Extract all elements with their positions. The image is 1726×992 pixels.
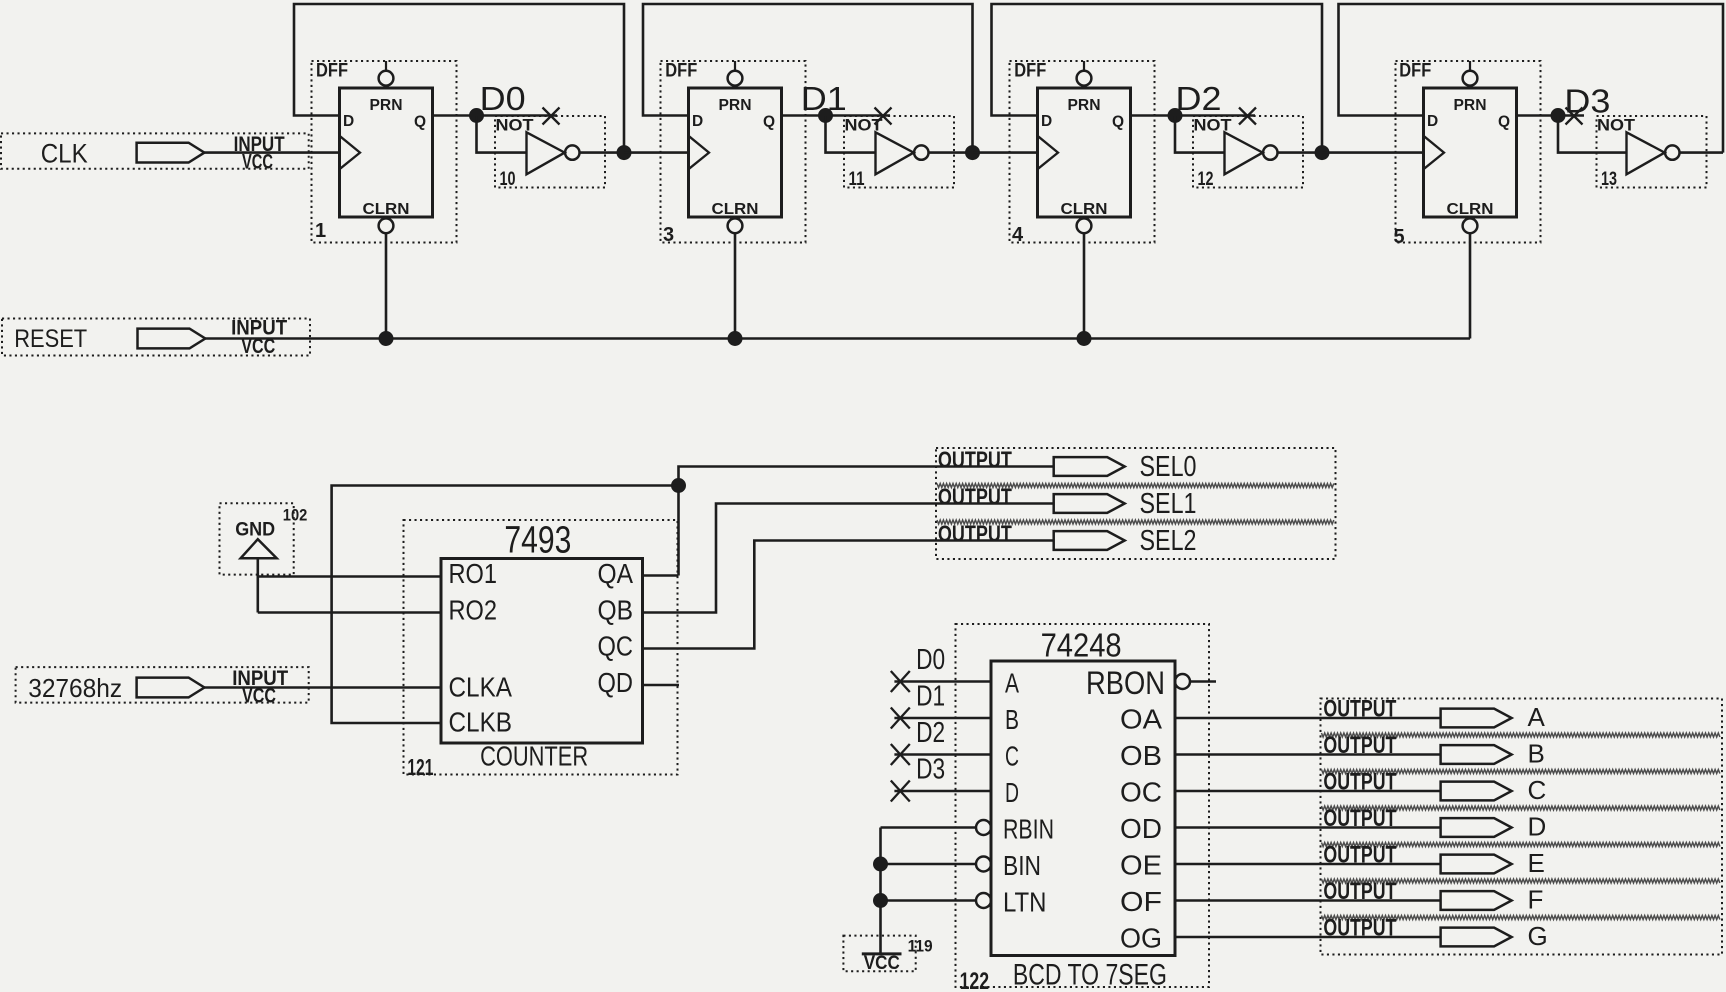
output pin SEL2 OUTPUT label (938, 521, 1012, 547)
wire clock chain to next stage (973, 151, 1038, 154)
separator in output group row 1 (1322, 733, 1720, 737)
counter U121 pin label QB (598, 595, 634, 626)
wire CLRN pull-down stage 2 (734, 233, 737, 338)
flip-flop U5 PRN label (1454, 97, 1487, 114)
input pin 32768hz tag symbol (137, 678, 205, 698)
net stub marker input 0 (891, 671, 910, 692)
decoder U122 BIN bubble (976, 857, 991, 872)
svg-text:121: 121 (407, 754, 433, 780)
inverter NOT 13 label (1597, 116, 1636, 135)
output pin SEL1 OUTPUT label (938, 484, 1012, 510)
wire CLK to flip-flop 1 clock (204, 151, 339, 154)
inverter NOT 12 dotted boundary (1193, 116, 1303, 188)
net label D1 (801, 80, 847, 117)
flip-flop U5 instance number (1394, 226, 1405, 248)
output pin C OUTPUT label (1323, 769, 1396, 796)
svg-text:D: D (1528, 812, 1547, 842)
decoder U122 pin label A (1005, 668, 1019, 699)
inverter NOT 12 bubble (1263, 145, 1277, 159)
wire decoder output B (1175, 753, 1441, 756)
decoder U122 pin label OA (1120, 704, 1162, 735)
svg-text:D3: D3 (1564, 83, 1610, 120)
net label D2 (1176, 80, 1222, 117)
decoder U122 pin label OB (1120, 740, 1162, 771)
svg-text:B: B (1528, 739, 1545, 769)
svg-text:RBIN: RBIN (1003, 814, 1054, 845)
svg-text:CLRN: CLRN (1061, 201, 1108, 218)
flip-flop U3 D pin label (692, 113, 703, 130)
wire feedback loop stage 1 (294, 4, 624, 153)
svg-text:D: D (1005, 777, 1019, 808)
wire decoder output G (1175, 936, 1441, 939)
input pin CLK dotted boundary (1, 133, 309, 168)
input pin CLK tag symbol (137, 143, 205, 163)
output pin C name (1528, 775, 1547, 805)
flip-flop U5 body (1424, 88, 1517, 217)
net label D3 at decoder (916, 754, 945, 786)
flip-flop U4 Q pin label (1112, 114, 1124, 131)
output pin SEL0 OUTPUT label (938, 447, 1012, 473)
svg-text:OF: OF (1120, 886, 1162, 917)
wire feedback loop stage 3 (992, 4, 1323, 153)
flip-flop U1 CLRN label (363, 201, 410, 218)
flip-flop U4 PRN label (1068, 97, 1101, 114)
wire decoder input 0 (894, 680, 991, 683)
flip-flop U1 clock triangle (340, 136, 361, 169)
flip-flop U4 clock triangle (1038, 136, 1059, 169)
wire QC output (643, 541, 1054, 649)
wire decoder output A (1175, 717, 1441, 720)
inverter NOT 13 instance number (1601, 169, 1617, 190)
svg-text:NOT: NOT (496, 116, 535, 135)
svg-text:OUTPUT: OUTPUT (1323, 805, 1396, 832)
svg-text:OUTPUT: OUTPUT (1323, 842, 1396, 869)
svg-text:PRN: PRN (1068, 97, 1101, 114)
input pin 32768hz VCC label (242, 684, 276, 707)
inverter NOT 13 dotted boundary (1597, 116, 1707, 188)
svg-text:OUTPUT: OUTPUT (1323, 769, 1396, 796)
net stub marker input 3 (891, 781, 910, 802)
svg-text:PRN: PRN (719, 97, 752, 114)
net label D0 at decoder (916, 644, 945, 676)
input pin CLK INPUT label (234, 133, 285, 156)
counter U121 body (441, 559, 643, 744)
svg-text:F: F (1528, 885, 1544, 915)
inverter NOT 11 label (845, 116, 884, 135)
flip-flop U1 PRN label (370, 97, 403, 114)
net stub marker input 2 (891, 744, 910, 765)
flip-flop U4 dotted boundary (1010, 61, 1155, 243)
separator in output group row 5 (1322, 879, 1720, 883)
net label D3 (1564, 83, 1610, 120)
wire QA output (643, 574, 679, 577)
counter U121 pin label CLKB (449, 707, 513, 738)
inverter NOT 11 dotted boundary (844, 116, 954, 188)
wire Q0 output (433, 114, 558, 117)
decoder U122 pin label RBON (1086, 665, 1165, 701)
svg-text:SEL0: SEL0 (1140, 451, 1197, 483)
svg-text:OE: OE (1120, 850, 1162, 881)
output pin E name (1528, 848, 1545, 878)
node reset junction stage 2 (728, 331, 743, 346)
net label D2 at decoder (916, 717, 945, 749)
wire VCC riser (879, 828, 882, 953)
flip-flop U3 PRN label (719, 97, 752, 114)
svg-text:D0: D0 (916, 644, 945, 676)
inverter NOT 10 label (496, 116, 535, 135)
ground symbol GND label (235, 520, 275, 541)
input pin 32768hz INPUT label (232, 667, 288, 690)
wire decoder output F (1175, 899, 1441, 902)
svg-text:Q: Q (763, 114, 775, 131)
svg-text:CLRN: CLRN (363, 201, 410, 218)
svg-text:QD: QD (598, 667, 634, 698)
svg-text:SEL2: SEL2 (1140, 525, 1197, 557)
flip-flop U4 PRN bubble (1077, 71, 1092, 86)
svg-text:7493: 7493 (504, 520, 571, 562)
svg-text:4: 4 (1012, 224, 1024, 246)
flip-flop U1 CLRN bubble (379, 218, 394, 233)
node clock junction stage 4 (1315, 145, 1330, 160)
flip-flop U1 body (340, 88, 433, 217)
svg-text:RO1: RO1 (449, 558, 498, 589)
svg-text:OB: OB (1120, 740, 1162, 771)
flip-flop U3 instance number (663, 224, 674, 246)
net label D1 at decoder (916, 681, 945, 713)
input pin RESET INPUT label (231, 317, 287, 340)
output pin B tag symbol (1441, 745, 1512, 764)
decoder U122 RBON bubble (1175, 674, 1190, 689)
counter U121 pin label RO2 (449, 595, 498, 626)
flip-flop U3 dotted boundary (661, 61, 806, 243)
svg-text:OUTPUT: OUTPUT (938, 447, 1012, 473)
svg-text:13: 13 (1601, 169, 1617, 190)
flip-flop U5 D pin label (1427, 113, 1438, 130)
net stub marker on Q3 (1566, 108, 1583, 125)
wire QB output (643, 504, 1054, 613)
output pin D tag symbol (1441, 818, 1512, 837)
svg-text:Q: Q (414, 114, 426, 131)
svg-text:D: D (1041, 113, 1052, 130)
flip-flop U3 PRN bubble (728, 71, 743, 86)
svg-text:D: D (343, 113, 354, 130)
wire decoder output C (1175, 790, 1441, 793)
node LTN junction (873, 893, 888, 908)
inverter NOT 11 triangle (876, 132, 914, 174)
counter U121 pin label RO1 (449, 558, 498, 589)
output pin F tag symbol (1441, 891, 1512, 910)
svg-text:10: 10 (500, 169, 516, 190)
inverter NOT 12 label (1194, 116, 1233, 135)
svg-text:QA: QA (598, 558, 634, 589)
flip-flop U5 Q pin label (1498, 114, 1510, 131)
wire decoder input 2 (894, 753, 991, 756)
wire Q1 to NOT 11 input (826, 116, 876, 153)
svg-text:C: C (1528, 775, 1547, 805)
output pin D name (1528, 812, 1547, 842)
power symbol VCC bar (862, 952, 902, 955)
wire NOT 11 output (929, 151, 973, 154)
svg-text:OUTPUT: OUTPUT (1323, 732, 1396, 759)
separator in output group row 4 (1322, 843, 1720, 847)
svg-text:CLRN: CLRN (1447, 201, 1494, 218)
decoder U122 pin label C (1005, 741, 1019, 772)
wire GND stem (256, 558, 259, 612)
svg-text:CLKA: CLKA (449, 672, 513, 703)
wire decoder input 3 (894, 790, 991, 793)
svg-text:D3: D3 (916, 754, 945, 786)
flip-flop U3 PRN stub (734, 61, 736, 71)
flip-flop U3 Q pin label (763, 114, 775, 131)
flip-flop U1 dotted boundary (312, 61, 457, 243)
input pin RESET VCC label (241, 335, 275, 358)
decoder U122 pin label B (1005, 704, 1019, 735)
svg-text:OUTPUT: OUTPUT (1323, 878, 1396, 905)
flip-flop U3 DFF label (665, 61, 697, 82)
wire Q3 output (1517, 114, 1585, 117)
wire Q2 to NOT 12 input (1175, 116, 1225, 153)
input pin RESET tag symbol (138, 329, 206, 349)
svg-text:DFF: DFF (1399, 61, 1431, 82)
counter U121 pin label QC (598, 631, 634, 662)
flip-flop U1 D pin label (343, 113, 354, 130)
flip-flop U5 PRN stub (1469, 61, 1471, 71)
net stub marker on Q1 (875, 108, 892, 125)
counter U121 7493 dotted boundary (404, 520, 678, 775)
output pin SEL1 name (1140, 488, 1197, 520)
inverter NOT 13 triangle (1627, 132, 1665, 174)
output pin SEL0 name (1140, 451, 1197, 483)
flip-flop U5 CLRN bubble (1463, 218, 1478, 233)
wire clock chain to next stage (624, 151, 689, 154)
power symbol VCC label (864, 953, 900, 974)
output pin B name (1528, 739, 1545, 769)
decoder U122 pin label OD (1120, 813, 1162, 844)
output pin SEL0 tag symbol (1054, 457, 1125, 476)
wire QA feedback to CLKB (332, 486, 679, 724)
svg-text:OUTPUT: OUTPUT (1323, 915, 1396, 942)
wire Q1 output (782, 114, 891, 117)
net stub marker on Q0 (543, 108, 560, 125)
wire clock chain to next stage (1322, 151, 1424, 154)
output pin A OUTPUT label (1323, 696, 1396, 723)
svg-text:D1: D1 (916, 681, 945, 713)
power symbol VCC instance number 119 (908, 937, 933, 955)
node Q3 junction (1551, 108, 1566, 123)
input pin CLK VCC label (242, 150, 273, 173)
svg-text:COUNTER: COUNTER (480, 741, 588, 772)
svg-text:119: 119 (908, 937, 933, 955)
power symbol VCC dotted boundary (843, 936, 915, 972)
flip-flop U4 CLRN label (1061, 201, 1108, 218)
wire Q0 to NOT 10 input (477, 116, 527, 153)
svg-text:122: 122 (960, 968, 990, 992)
svg-text:PRN: PRN (370, 97, 403, 114)
svg-text:A: A (1528, 702, 1546, 732)
wire feedback loop stage 4 (1339, 4, 1724, 153)
output pin SEL2 tag symbol (1054, 531, 1125, 550)
decoder U122 LTN bubble (976, 893, 991, 908)
flip-flop U3 CLRN bubble (728, 218, 743, 233)
output pin group A-G dotted boundary (1321, 699, 1723, 955)
svg-text:NOT: NOT (1597, 116, 1636, 135)
svg-text:DFF: DFF (665, 61, 697, 82)
separator in output group row 3 (1322, 806, 1720, 810)
svg-text:3: 3 (663, 224, 674, 246)
output pin E tag symbol (1441, 855, 1512, 874)
wire NOT 10 output (580, 151, 625, 154)
inverter NOT 10 instance number (500, 169, 516, 190)
inverter NOT 12 instance number (1198, 169, 1214, 190)
svg-text:RO2: RO2 (449, 595, 498, 626)
inverter NOT 10 triangle (527, 132, 565, 174)
node reset junction stage 1 (379, 331, 394, 346)
svg-text:QB: QB (598, 595, 634, 626)
decoder U122 pin label D (1005, 777, 1019, 808)
flip-flop U1 DFF label (316, 61, 348, 82)
decoder U122 pin label BIN (1003, 850, 1041, 881)
flip-flop U5 PRN bubble (1463, 71, 1478, 86)
svg-text:D1: D1 (801, 80, 847, 117)
decoder U122 pin label OE (1120, 850, 1162, 881)
flip-flop U1 instance number (315, 220, 326, 242)
input pin 32768hz name (28, 673, 122, 703)
wire GND to RO2 (258, 611, 441, 614)
separator between SEL0 and SEL1 (937, 484, 1334, 488)
svg-text:PRN: PRN (1454, 97, 1487, 114)
wire decoder output D (1175, 826, 1441, 829)
counter U121 pin label QA (598, 558, 634, 589)
svg-text:5: 5 (1394, 226, 1405, 248)
separator in output group row 6 (1322, 916, 1720, 920)
flip-flop U3 CLRN label (712, 201, 759, 218)
decoder U122 pin label OF (1120, 886, 1162, 917)
input pin RESET dotted boundary (2, 319, 310, 356)
decoder U122 pin label RBIN (1003, 814, 1054, 845)
svg-text:G: G (1528, 921, 1548, 951)
flip-flop U1 PRN stub (385, 61, 387, 71)
svg-text:NOT: NOT (1194, 116, 1233, 135)
svg-text:A: A (1005, 668, 1019, 699)
flip-flop U1 PRN bubble (379, 71, 394, 86)
svg-text:11: 11 (849, 169, 865, 190)
svg-text:CLK: CLK (41, 138, 88, 168)
wire feedback loop stage 2 (643, 4, 973, 153)
decoder U122 RBIN bubble (976, 820, 991, 835)
svg-text:OUTPUT: OUTPUT (938, 521, 1012, 547)
net stub marker on Q2 (1239, 108, 1256, 125)
svg-text:Q: Q (1498, 114, 1510, 131)
svg-text:RESET: RESET (14, 325, 87, 353)
ground symbol GND triangle (241, 539, 277, 558)
svg-text:BIN: BIN (1003, 850, 1041, 881)
svg-text:102: 102 (283, 507, 308, 525)
svg-text:SEL1: SEL1 (1140, 488, 1197, 520)
svg-text:DFF: DFF (316, 61, 348, 82)
svg-text:D: D (1427, 113, 1438, 130)
output pin A name (1528, 702, 1546, 732)
inverter NOT 13 bubble (1665, 145, 1679, 159)
node reset junction stage 3 (1077, 331, 1092, 346)
input pin CLK name (41, 138, 88, 168)
decoder U122 body (991, 661, 1175, 956)
ground symbol GND instance number 102 (283, 507, 308, 525)
svg-text:C: C (1005, 741, 1019, 772)
svg-text:12: 12 (1198, 169, 1214, 190)
node BIN junction (873, 857, 888, 872)
wire BIN (881, 863, 977, 866)
separator between SEL1 and SEL2 (937, 520, 1334, 524)
inverter NOT 11 bubble (914, 145, 928, 159)
svg-text:74248: 74248 (1041, 627, 1122, 664)
svg-text:BCD TO 7SEG: BCD TO 7SEG (1013, 959, 1167, 992)
output pin E OUTPUT label (1323, 842, 1396, 869)
flip-flop U4 CLRN bubble (1077, 218, 1092, 233)
output pin group SEL dotted boundary (936, 448, 1336, 559)
wire QD stub (643, 684, 680, 687)
svg-text:D2: D2 (1176, 80, 1222, 117)
net stub marker input 1 (891, 708, 910, 729)
wire Q3 to NOT 13 input (1558, 116, 1627, 153)
node QA junction (671, 478, 686, 493)
decoder U122 pin label OG (1120, 923, 1162, 954)
svg-text:QC: QC (598, 631, 634, 662)
inverter NOT 10 dotted boundary (495, 116, 605, 188)
wire RBIN (881, 826, 977, 829)
flip-flop U4 PRN stub (1083, 61, 1085, 71)
wire CLRN pull-down stage 4 (1469, 233, 1472, 338)
svg-text:1: 1 (315, 220, 326, 242)
svg-text:OD: OD (1120, 813, 1162, 844)
flip-flop U5 clock triangle (1424, 136, 1445, 169)
counter U121 pin label QD (598, 667, 634, 698)
wire NOT 13 output (1680, 151, 1724, 154)
output pin D OUTPUT label (1323, 805, 1396, 832)
output pin A tag symbol (1441, 709, 1512, 728)
flip-flop U4 body (1038, 88, 1131, 217)
flip-flop U4 D pin label (1041, 113, 1052, 130)
svg-text:OG: OG (1120, 923, 1162, 954)
svg-text:DFF: DFF (1014, 61, 1046, 82)
svg-text:NOT: NOT (845, 116, 884, 135)
flip-flop U3 body (689, 88, 782, 217)
svg-text:CLRN: CLRN (712, 201, 759, 218)
output pin G OUTPUT label (1323, 915, 1396, 942)
counter U121 part name 7493 (504, 520, 571, 562)
wire GND to RO1 (258, 575, 441, 578)
output pin SEL1 tag symbol (1054, 494, 1125, 513)
counter U121 pin label CLKA (449, 672, 513, 703)
inverter NOT 12 triangle (1225, 132, 1263, 174)
decoder U122 pin label LTN (1003, 887, 1047, 918)
wire QA riser to SEL0 (679, 467, 1054, 576)
svg-text:OA: OA (1120, 704, 1162, 735)
output pin F OUTPUT label (1323, 878, 1396, 905)
wire LTN (881, 899, 977, 902)
input pin RESET name (14, 325, 87, 353)
decoder U122 pin label OC (1120, 777, 1162, 808)
svg-text:32768hz: 32768hz (28, 673, 122, 703)
flip-flop U4 DFF label (1014, 61, 1046, 82)
flip-flop U1 Q pin label (414, 114, 426, 131)
node clock junction stage 2 (617, 145, 632, 160)
wire NOT 12 output (1278, 151, 1323, 154)
node Q1 junction (818, 108, 833, 123)
flip-flop U5 CLRN label (1447, 201, 1494, 218)
svg-text:LTN: LTN (1003, 887, 1047, 918)
decoder U122 BCD TO 7SEG label (1013, 959, 1167, 992)
svg-text:E: E (1528, 848, 1545, 878)
